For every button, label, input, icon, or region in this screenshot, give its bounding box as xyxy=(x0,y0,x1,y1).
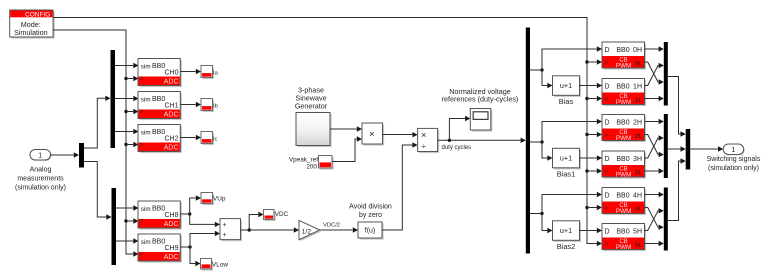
wire final mux to output port xyxy=(690,146,723,151)
wires PWM 4H/4L/5H/5L to mux C with crossover xyxy=(645,192,664,246)
svg-text:Generator: Generator xyxy=(295,102,328,111)
svg-text:PWM: PWM xyxy=(616,244,632,251)
wire lower bar to ADC sim input y=241 xyxy=(116,238,139,243)
svg-text:>: > xyxy=(605,133,609,139)
svg-text:(simulation only): (simulation only) xyxy=(15,184,66,191)
svg-text:Ia: Ia xyxy=(213,70,219,76)
final mux bar (switching signals) xyxy=(686,129,691,170)
svg-text:5L: 5L xyxy=(635,242,643,249)
wire upper bar to ADC sim input y=131.5 xyxy=(115,129,139,134)
junction and spur to ADC sync input y=144.5 xyxy=(124,142,138,147)
svg-text:BB0: BB0 xyxy=(152,129,165,136)
wire Bias to PWM 1H D xyxy=(580,83,603,88)
svg-text:>: > xyxy=(605,206,609,212)
svg-text:0L: 0L xyxy=(635,61,643,68)
PWM block 1H xyxy=(602,79,646,107)
svg-text:BB0: BB0 xyxy=(152,63,165,70)
wire sum out with junction to VDC and gain xyxy=(241,212,300,233)
label Switching signals (simulation only) xyxy=(707,156,761,172)
DAC tag VUp xyxy=(201,193,226,206)
svg-text:2L: 2L xyxy=(635,133,643,140)
svg-text:measurements: measurements xyxy=(17,175,64,182)
svg-text:>: > xyxy=(605,97,609,103)
svg-text:BB0: BB0 xyxy=(616,193,629,200)
svg-text:>: > xyxy=(605,60,609,66)
svg-text:>: > xyxy=(140,77,144,83)
output port 1 Switching signals xyxy=(723,144,745,155)
wire input port to demux xyxy=(51,152,80,157)
svg-text:D: D xyxy=(605,47,610,54)
svg-text:BB0: BB0 xyxy=(152,96,165,103)
svg-text:Bias1: Bias1 xyxy=(557,170,576,179)
3-phase Sinewave Generator block xyxy=(296,113,332,148)
PWM block 4H xyxy=(602,188,646,216)
svg-text:4H: 4H xyxy=(633,193,642,200)
svg-text:>: > xyxy=(140,143,144,149)
wire mux C to final mux xyxy=(668,158,686,220)
svg-text:Analog: Analog xyxy=(30,166,52,173)
svg-text:+: + xyxy=(223,222,227,229)
PWM block 0H xyxy=(602,42,646,70)
mux bar A (phase a gates) xyxy=(664,42,668,106)
svg-text:CH8: CH8 xyxy=(164,212,178,219)
svg-text:Ic: Ic xyxy=(213,136,218,142)
svg-text:3L: 3L xyxy=(635,170,643,177)
svg-text:ADC: ADC xyxy=(164,111,179,118)
f(u) block Avoid division by zero xyxy=(358,222,384,240)
wire divide out duty cycles to big demux bar xyxy=(438,138,526,143)
label Normalized voltage references (duty-cycles) xyxy=(442,87,519,104)
wire upper bar to ADC sim input y=98.5 xyxy=(115,96,139,101)
wire Bias2 to PWM 5H D xyxy=(580,228,603,233)
wire mux A to final mux xyxy=(668,77,686,137)
svg-text:Switching signals: Switching signals xyxy=(707,156,761,163)
svg-text:CONFIG: CONFIG xyxy=(25,12,50,19)
wire ADC CH1 out xyxy=(181,102,202,107)
svg-text:PWM: PWM xyxy=(616,135,632,142)
svg-text:references (duty-cycles): references (duty-cycles) xyxy=(442,95,519,104)
wire CONFIG out2 to ADC sync bus xyxy=(53,30,138,257)
svg-text:by zero: by zero xyxy=(359,212,382,219)
svg-text:CH9: CH9 xyxy=(164,245,178,252)
svg-text:Ib: Ib xyxy=(213,103,218,109)
svg-text:D: D xyxy=(605,84,610,91)
PWM block 3H xyxy=(602,151,646,179)
svg-text:4L: 4L xyxy=(635,206,643,213)
wire sinegen to product xyxy=(330,126,362,131)
svg-text:(simulation only): (simulation only) xyxy=(708,165,759,172)
wire demux top out to upper mux-bus xyxy=(84,96,111,148)
svg-text:PWM: PWM xyxy=(616,99,632,106)
svg-text:ADC: ADC xyxy=(164,254,179,261)
label 3-phase Sinewave Generator xyxy=(295,86,328,111)
label Avoid division by zero xyxy=(349,203,392,219)
svg-text:>: > xyxy=(140,110,144,116)
input port 1 Analog measurements xyxy=(30,150,52,161)
svg-text:BB0: BB0 xyxy=(616,47,629,54)
DAC tag Ic xyxy=(201,132,218,146)
constant tag Vpeak_ref 200 xyxy=(289,156,334,171)
svg-text:BB0: BB0 xyxy=(616,229,629,236)
junction and spur to PWM sync input y=134.5 xyxy=(585,132,602,137)
scope Normalized voltage references xyxy=(470,109,492,132)
svg-text:1: 1 xyxy=(732,147,736,154)
Bias1 block u+1 xyxy=(553,148,582,178)
svg-text:D: D xyxy=(605,156,610,163)
svg-text:f(u): f(u) xyxy=(365,228,376,235)
svg-text:>: > xyxy=(605,242,609,248)
svg-text:sim: sim xyxy=(141,97,151,104)
svg-text:Bias: Bias xyxy=(559,97,574,106)
wire duty branch to scope xyxy=(449,116,470,141)
svg-text:sim: sim xyxy=(141,130,151,137)
svg-text:BB0: BB0 xyxy=(152,205,165,212)
PWM block 5H xyxy=(602,224,646,252)
svg-text:CH1: CH1 xyxy=(164,102,178,109)
svg-text:D: D xyxy=(605,229,610,236)
svg-text:Simulation: Simulation xyxy=(14,28,48,37)
demux bar lower (CH8-CH9 feed) xyxy=(112,188,117,265)
svg-text:1L: 1L xyxy=(635,97,643,104)
mux bar B (phase b gates) xyxy=(664,114,668,178)
ADC block CH2 xyxy=(138,125,182,154)
svg-text:>: > xyxy=(605,169,609,175)
Bias block u+1 xyxy=(553,76,582,106)
svg-text:ADC: ADC xyxy=(164,78,179,85)
svg-text:sim: sim xyxy=(141,64,151,71)
label VDC/2 xyxy=(323,222,340,228)
svg-text:PWM: PWM xyxy=(616,62,632,69)
svg-text:CH2: CH2 xyxy=(164,135,178,142)
ADC block CH1 xyxy=(138,92,182,121)
wire ADC CH0 out xyxy=(181,69,202,74)
junction and spur to PWM sync input y=171 xyxy=(585,168,602,173)
svg-text:VUp: VUp xyxy=(213,196,226,203)
svg-text:ADC: ADC xyxy=(164,144,179,151)
DAC tag Ib xyxy=(201,99,218,113)
svg-text:VDC: VDC xyxy=(275,211,289,218)
junction and spur to ADC sync input y=111.5 xyxy=(124,109,138,114)
svg-text:×: × xyxy=(421,130,426,140)
wire upper bar to ADC sim input y=65.5 xyxy=(115,63,139,68)
wire ADC CH2 out xyxy=(181,135,202,140)
wires PWM 0H/0L/1H/1L to mux A with crossover xyxy=(645,46,664,101)
sum block (VUp+VLow) xyxy=(220,219,242,242)
svg-text:5H: 5H xyxy=(633,229,642,236)
svg-text:>: > xyxy=(140,219,144,225)
svg-text:÷: ÷ xyxy=(421,141,426,151)
DAC tag Ia xyxy=(201,66,219,80)
ADC block CH0 xyxy=(138,59,182,88)
svg-text:Bias2: Bias2 xyxy=(557,242,576,251)
wire Vpeak_ref to product xyxy=(332,136,362,161)
ADC block CH8 xyxy=(138,201,182,230)
svg-text:D: D xyxy=(605,193,610,200)
svg-text:+: + xyxy=(223,232,227,239)
svg-text:1/2: 1/2 xyxy=(302,228,312,235)
wire gain to f(u) xyxy=(320,227,358,232)
label Analog measurements (simulation only) xyxy=(15,166,66,191)
wire bar out1 to PWM 0H and Bias xyxy=(530,46,602,88)
svg-text:u+1: u+1 xyxy=(560,154,572,163)
svg-text:VLow: VLow xyxy=(212,261,228,268)
junction and spur to ADC sync input y=78.5 xyxy=(124,76,138,81)
svg-text:2H: 2H xyxy=(633,120,642,127)
svg-text:BB0: BB0 xyxy=(616,156,629,163)
divide block duty computation xyxy=(418,128,440,153)
wire demux bottom out to lower mux-bus xyxy=(84,162,112,220)
wire ADC CH9 out with junction xyxy=(181,231,221,266)
svg-text:BB0: BB0 xyxy=(616,84,629,91)
svg-text:>: > xyxy=(140,252,144,258)
svg-text:D: D xyxy=(605,120,610,127)
svg-text:ADC: ADC xyxy=(164,221,179,228)
wire product to divide xyxy=(383,132,418,137)
svg-text:CH0: CH0 xyxy=(164,69,178,76)
demux bar duty signals (3-way) xyxy=(526,28,530,254)
demux bar upper (CH0-CH2 feed) xyxy=(111,50,116,148)
svg-text:u+1: u+1 xyxy=(560,81,572,90)
label duty cycles xyxy=(442,145,472,151)
svg-text:duty cycles: duty cycles xyxy=(442,145,472,151)
wires PWM 2H/2L/3H/3L to mux B with crossover xyxy=(645,119,664,174)
svg-text:1H: 1H xyxy=(633,84,642,91)
svg-text:PWM: PWM xyxy=(616,171,632,178)
svg-text:200: 200 xyxy=(306,164,317,171)
svg-text:Avoid division: Avoid division xyxy=(349,203,392,210)
svg-text:×: × xyxy=(369,129,375,140)
svg-text:sim: sim xyxy=(141,239,151,246)
svg-text:3H: 3H xyxy=(633,156,642,163)
gain block 1/2 xyxy=(299,220,321,241)
wire mux B to final mux xyxy=(668,146,686,151)
wire f(u) out up to divide xyxy=(382,142,418,230)
junction and spur to PWM sync input y=62 xyxy=(585,59,602,64)
svg-text:u+1: u+1 xyxy=(560,226,572,235)
DAC tag VLow xyxy=(201,259,229,271)
svg-text:BB0: BB0 xyxy=(152,238,165,245)
junction and spur to ADC sync input y=221 xyxy=(124,218,138,223)
junction and spur to PWM sync input y=207.5 xyxy=(585,205,602,210)
wire bar out2 to PWM 2H and Bias1 xyxy=(530,119,602,161)
junction and spur to PWM sync input y=98.5 xyxy=(585,96,602,101)
mux bar C (phase c gates) xyxy=(664,188,668,251)
Bias2 block u+1 xyxy=(553,221,582,251)
product block x xyxy=(362,123,384,146)
wire Bias1 to PWM 3H D xyxy=(580,155,603,160)
PWM block 2H xyxy=(602,115,646,143)
ADC block CH9 xyxy=(138,234,182,263)
svg-text:VDC/2: VDC/2 xyxy=(323,222,340,228)
wire bar out3 to PWM 4H and Bias2 xyxy=(530,192,602,233)
wire CONFIG out1 to PWM sync bus xyxy=(53,18,602,247)
demux (2-way) after input port xyxy=(79,143,84,168)
svg-text:PWM: PWM xyxy=(616,208,632,215)
wire lower bar to ADC sim input y=208 xyxy=(116,205,139,210)
wire ADC CH8 out with junction xyxy=(181,195,221,227)
svg-text:sim: sim xyxy=(141,206,151,213)
DAC tag VDC xyxy=(264,210,289,222)
svg-text:1: 1 xyxy=(38,153,42,160)
svg-text:BB0: BB0 xyxy=(616,120,629,127)
CONFIG block xyxy=(10,10,55,39)
svg-text:0H: 0H xyxy=(633,47,642,54)
